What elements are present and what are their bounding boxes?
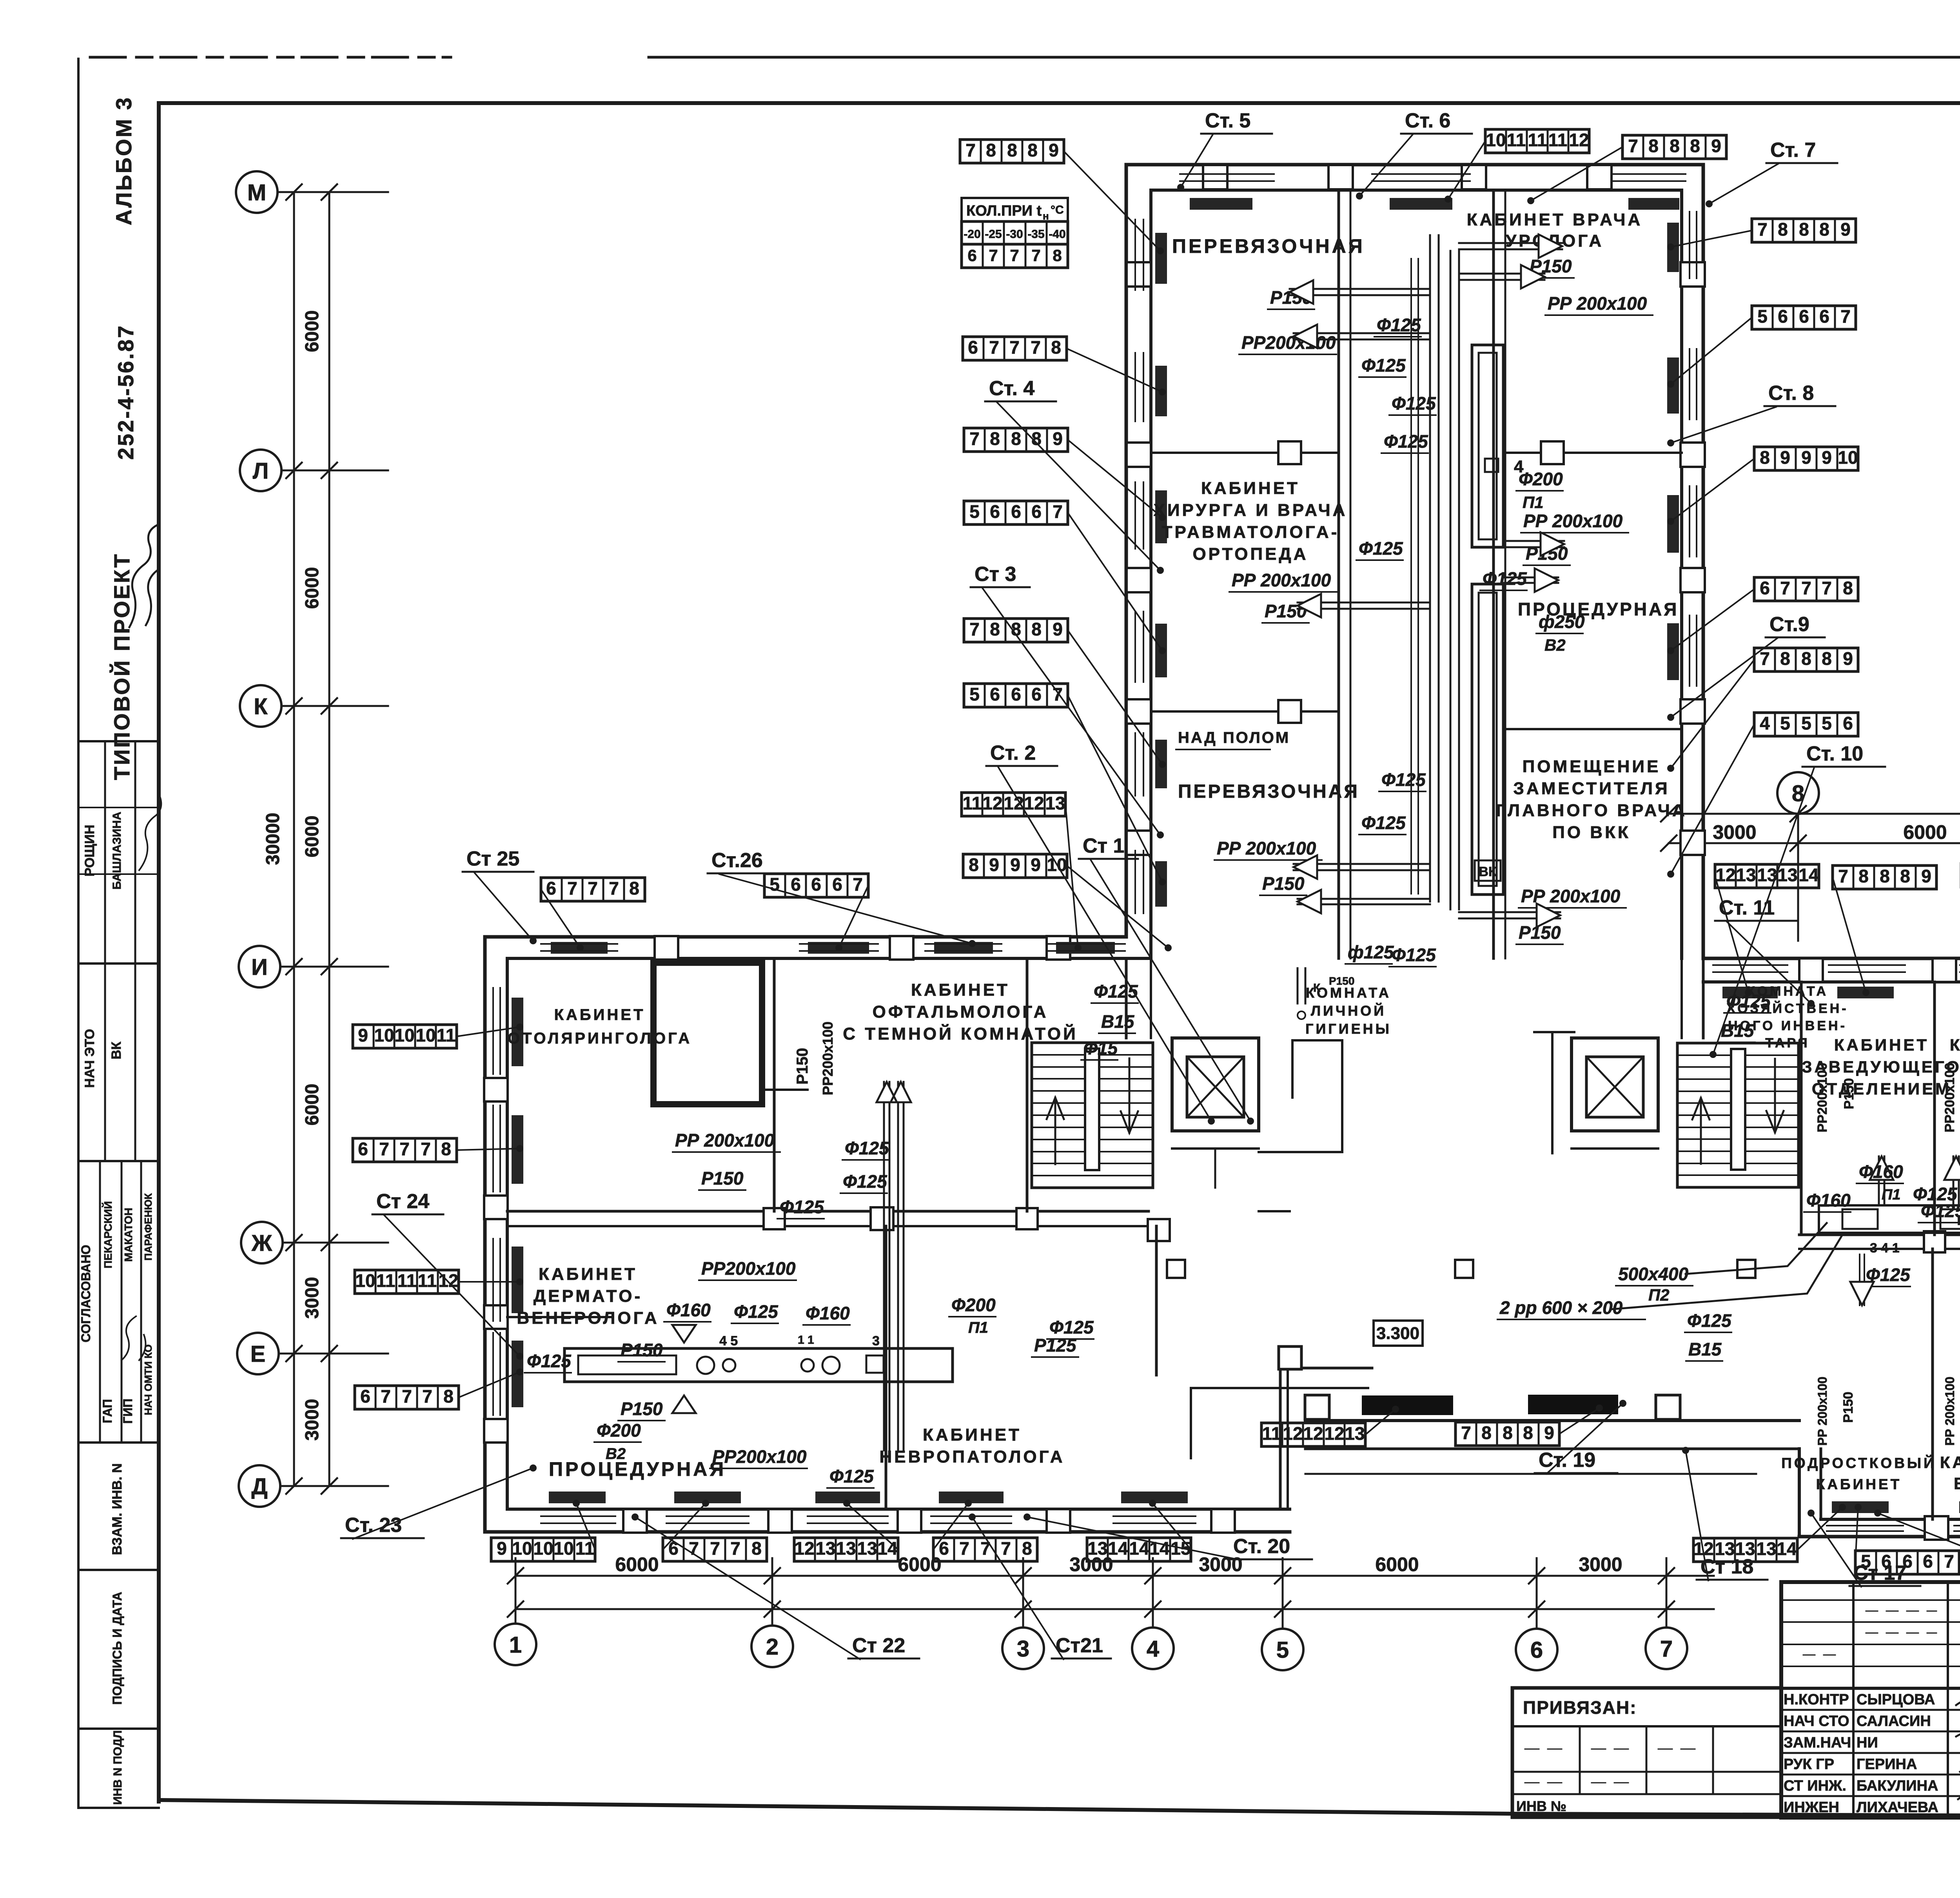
svg-text:8: 8: [986, 140, 996, 160]
svg-text:ДЕРМАТО-: ДЕРМАТО-: [534, 1287, 642, 1306]
left wing bottom wall: [485, 1530, 1290, 1534]
svg-text:14: 14: [877, 1538, 898, 1559]
svg-text:ГИП: ГИП: [121, 1399, 135, 1424]
svg-text:НАЧ ЭТО: НАЧ ЭТО: [82, 1029, 97, 1088]
svg-text:6: 6: [967, 246, 976, 265]
svg-text:ВК: ВК: [109, 1042, 124, 1060]
svg-text:Р150: Р150: [621, 1340, 663, 1360]
svg-text:ЗАМ.НАЧ: ЗАМ.НАЧ: [1784, 1735, 1851, 1751]
number box 5 6 6 6 7: [1855, 1551, 1959, 1574]
right wing top wall pilaster: [1933, 958, 1956, 982]
dim tick axis 4: [1145, 1568, 1161, 1617]
svg-text:13: 13: [1045, 793, 1065, 813]
svg-text:6000: 6000: [302, 1084, 323, 1126]
leader line: [1671, 660, 1754, 768]
svg-text:3000: 3000: [1713, 821, 1756, 843]
svg-text:5: 5: [769, 874, 780, 895]
svg-text:НИ: НИ: [1857, 1735, 1878, 1751]
upper wing top wall pilaster: [1328, 165, 1353, 189]
upper wing top wall: [1126, 163, 1703, 167]
svg-text:Ст.9: Ст.9: [1769, 613, 1809, 636]
svg-text:3: 3: [1017, 1636, 1029, 1662]
number box 12 13 13 13 14: [794, 1538, 898, 1561]
svg-text:11: 11: [1548, 130, 1568, 150]
svg-text:ГАП: ГАП: [100, 1399, 114, 1423]
axis 1 riser: [515, 1558, 517, 1624]
number box 10 11 11 11 12: [1485, 129, 1589, 153]
recess corner block: [1305, 1395, 1329, 1419]
svg-text:7: 7: [1822, 578, 1832, 598]
svg-text:8: 8: [1523, 1423, 1533, 1443]
svg-text:КАБИНЕТ: КАБИНЕТ: [911, 980, 1010, 1000]
radiator upper wing east: [1667, 357, 1679, 414]
leader Ст. 19: [1546, 1403, 1623, 1474]
sheet outer border top-left segment: [90, 56, 451, 59]
svg-text:Ф200: Ф200: [1519, 469, 1563, 489]
svg-text:8: 8: [751, 1538, 762, 1559]
left wing west wall pilaster: [484, 1078, 508, 1101]
svg-text:13: 13: [857, 1538, 877, 1559]
svg-text:КАБИНЕТ: КАБИНЕТ: [554, 1006, 646, 1023]
window line upper wing top: [1180, 173, 1274, 175]
svg-text:-40: -40: [1049, 228, 1065, 241]
stamp row2 col lines: [104, 964, 106, 1161]
duct arrow left 3: [1298, 602, 1430, 604]
dim tick at Л: [286, 463, 337, 478]
central recess left wall: [1279, 1370, 1282, 1509]
svg-text:Ф125: Ф125: [1361, 813, 1406, 833]
svg-text:8: 8: [1880, 866, 1890, 886]
svg-text:9: 9: [1801, 447, 1811, 468]
leader line: [1715, 876, 1748, 993]
svg-text:Р150: Р150: [1262, 873, 1305, 894]
window line upper wing east: [1689, 615, 1690, 686]
left wing bottom wall pilaster: [768, 1509, 792, 1533]
svg-text:Ст.26: Ст.26: [711, 849, 763, 872]
svg-text:Ст. 7: Ст. 7: [1770, 139, 1816, 161]
number box 7 8 8 8 9: [960, 140, 1064, 163]
axis 7 riser: [1666, 1558, 1668, 1628]
title block thin row: [1781, 1599, 1960, 1601]
svg-text:П1: П1: [1523, 493, 1544, 512]
svg-text:9: 9: [358, 1025, 368, 1045]
svg-text:13: 13: [1087, 1538, 1107, 1559]
corridor end column: [1148, 1219, 1170, 1241]
leader Ст21: [972, 1517, 1063, 1659]
svg-text:Ст. 5: Ст. 5: [1205, 109, 1250, 132]
leader line: [1068, 440, 1162, 517]
personnel row line: [1781, 1731, 1960, 1733]
svg-text:Ф125: Ф125: [1392, 393, 1436, 414]
dim tick at Ж: [286, 1235, 337, 1250]
svg-text:ПО ВКК: ПО ВКК: [1552, 823, 1631, 842]
leader Ст.9: [1671, 638, 1777, 717]
svg-text:3: 3: [872, 1334, 880, 1348]
svg-text:-25: -25: [985, 228, 1002, 241]
svg-text:Ст 3: Ст 3: [975, 563, 1016, 586]
svg-text:7: 7: [1760, 648, 1770, 669]
svg-text:12: 12: [982, 793, 1002, 813]
svg-text:РР 200х100: РР 200х100: [1943, 1377, 1957, 1446]
leader line: [839, 885, 868, 948]
privyazan header line: [1512, 1725, 1781, 1727]
stamp row1 horizontal mid lines: [78, 807, 159, 808]
left elevator lobby walls: [1172, 1147, 1259, 1150]
svg-text:12: 12: [1283, 1423, 1303, 1444]
svg-text:Ф125: Ф125: [1377, 315, 1421, 335]
svg-text:30000: 30000: [263, 813, 283, 865]
svg-text:10: 10: [512, 1538, 532, 1559]
window line upper wing top: [1372, 173, 1470, 175]
svg-text:Ф125: Ф125: [1361, 355, 1406, 376]
svg-text:РР 200х100: РР 200х100: [675, 1130, 775, 1150]
black vent rect 2: [1528, 1395, 1618, 1414]
privyazan row: [1512, 1771, 1781, 1773]
axis circle М: [236, 171, 278, 213]
number box 9 10 10 10 11: [491, 1538, 595, 1561]
svg-text:6: 6: [1530, 1637, 1543, 1663]
right stairwell: [1677, 1043, 1798, 1187]
svg-text:ВК: ВК: [1479, 864, 1497, 879]
svg-text:Р125: Р125: [1034, 1335, 1077, 1355]
svg-text:Ф125: Ф125: [1913, 1184, 1958, 1204]
svg-text:5: 5: [1757, 306, 1768, 327]
svg-text:ЛИЧНОЙ: ЛИЧНОЙ: [1311, 1002, 1386, 1019]
duct shaft lower: [1472, 584, 1503, 895]
main corridor south wall right wing: [1799, 1234, 1960, 1236]
leader line: [847, 1503, 898, 1550]
top-right dim chain line 2: [1669, 842, 1960, 844]
leader line: [457, 1027, 520, 1036]
inventory room walls: [1534, 1031, 1574, 1033]
svg-text:РР200х100: РР200х100: [1942, 1063, 1957, 1132]
right elevator lobby walls: [1572, 1147, 1658, 1150]
svg-text:8: 8: [1858, 866, 1869, 886]
axis Л extension line: [281, 470, 388, 472]
svg-text:РР200х100: РР200х100: [701, 1258, 796, 1279]
left wing bottom wall pilaster: [1047, 1509, 1070, 1533]
svg-text:АЛЬБОМ 3: АЛЬБОМ 3: [111, 96, 136, 225]
svg-text:8: 8: [990, 619, 1000, 639]
main corridor north wall: [507, 1210, 1149, 1213]
svg-text:Л: Л: [253, 458, 269, 484]
svg-text:Р150: Р150: [1842, 1078, 1857, 1109]
title block dash marks: [1866, 1611, 1936, 1612]
sheet inner frame left: [157, 103, 161, 1802]
axis К extension line: [281, 705, 388, 707]
hall column 1: [1167, 1260, 1185, 1278]
radiator left wing south: [815, 1492, 880, 1503]
left dimension chain line 1: [293, 192, 295, 1486]
svg-text:7: 7: [730, 1538, 740, 1559]
svg-text:1 1: 1 1: [798, 1334, 814, 1346]
svg-text:8: 8: [969, 855, 979, 875]
kol.pri table bottom row: [962, 244, 1068, 268]
axis circle Е: [237, 1333, 279, 1374]
svg-text:ПРОЦЕДУРНАЯ: ПРОЦЕДУРНАЯ: [549, 1458, 726, 1480]
wing corridor west wall: [1338, 190, 1340, 958]
right duct band boxes: [1940, 1209, 1960, 1229]
duct arrow left 2: [1294, 332, 1430, 334]
window line upper wing east: [1689, 486, 1690, 557]
svg-text:7: 7: [1009, 337, 1020, 357]
svg-text:Ст. 8: Ст. 8: [1768, 382, 1814, 405]
leader Ст.26: [719, 874, 972, 944]
partition otolaryngolog/oftalmolog: [773, 958, 776, 1211]
axis circle К: [240, 685, 281, 727]
svg-text:8: 8: [1031, 619, 1042, 639]
svg-text:НАЧ СТО: НАЧ СТО: [1784, 1713, 1849, 1729]
number box 13 14 14 14 15: [1087, 1538, 1191, 1561]
svg-text:9: 9: [1840, 219, 1851, 240]
window line upper wing west: [1134, 733, 1136, 796]
duct arrow left 1: [1290, 288, 1430, 290]
hall west wall stub: [1125, 958, 1128, 1038]
svg-text:12: 12: [1024, 793, 1044, 813]
svg-text:12: 12: [794, 1538, 814, 1559]
radiator right wing north: [1722, 987, 1778, 998]
title block vertical: [1852, 1582, 1855, 1818]
axis circle 7: [1646, 1628, 1687, 1669]
right wing top wall pilaster: [1799, 958, 1823, 982]
svg-text:9: 9: [989, 855, 999, 875]
svg-text:П1: П1: [1882, 1187, 1900, 1203]
stamp handwriting over title: [129, 525, 157, 627]
svg-text:7: 7: [710, 1538, 720, 1559]
left stairwell: [1032, 1043, 1153, 1188]
svg-text:7: 7: [980, 1538, 991, 1559]
window line upper wing west: [1134, 220, 1136, 290]
number box 7 8 8 8 9: [1622, 135, 1726, 159]
svg-text:3000: 3000: [302, 1277, 323, 1319]
svg-text:8: 8: [1648, 136, 1659, 156]
central south wall block right: [1656, 1395, 1680, 1419]
svg-text:14: 14: [1798, 865, 1819, 885]
svg-text:Р150: Р150: [1841, 1392, 1856, 1423]
duct riser lines in corridor: [1429, 235, 1431, 902]
personnel row line: [1781, 1752, 1960, 1754]
svg-text:10: 10: [394, 1025, 414, 1045]
svg-text:7: 7: [1010, 246, 1019, 265]
number box 5 6 6 6 7: [1752, 306, 1856, 329]
radiator upper wing west: [1155, 861, 1167, 907]
svg-text:7: 7: [1461, 1423, 1471, 1443]
svg-text:Ст. 2: Ст. 2: [990, 742, 1036, 764]
svg-text:Ж: Ж: [251, 1230, 272, 1256]
dim tick chain start: [1661, 806, 1677, 851]
svg-text:8: 8: [1011, 428, 1021, 449]
svg-text:6: 6: [832, 874, 842, 895]
svg-text:7: 7: [609, 878, 619, 898]
svg-text:10: 10: [416, 1025, 436, 1045]
svg-text:6000: 6000: [898, 1553, 941, 1575]
number box 11 12 12 12 13: [962, 793, 1065, 816]
axis circle Л: [240, 450, 281, 491]
dim tick axis 6: [1529, 1568, 1544, 1617]
svg-text:12: 12: [1324, 1423, 1344, 1444]
svg-text:8: 8: [1690, 136, 1700, 156]
upper wing top wall pilaster: [1203, 165, 1227, 189]
window line left wing south: [666, 1515, 749, 1517]
stamp divider y4410: [78, 1727, 159, 1730]
svg-text:КАБИНЕТ: КАБИНЕТ: [1201, 479, 1300, 498]
leader Ст. 5: [1181, 134, 1213, 187]
svg-text:КАБИНЕТ: КАБИНЕТ: [1940, 1453, 1960, 1472]
title block outer: [1781, 1582, 1960, 1818]
hygiene room walls: [1292, 1039, 1342, 1042]
leader line: [1855, 1507, 1858, 1562]
number box 10 11 11 11 12: [355, 1270, 459, 1294]
svg-text:6: 6: [1923, 1551, 1933, 1571]
svg-text:6: 6: [1778, 306, 1788, 327]
sheet inner frame bottom: [159, 1800, 1960, 1818]
svg-text:Ф125: Ф125: [1049, 1317, 1094, 1337]
svg-text:9: 9: [1711, 136, 1721, 156]
number box 6 7 7 7 8: [355, 1386, 459, 1409]
svg-text:7: 7: [1838, 866, 1848, 886]
axis М extension line: [278, 191, 388, 193]
svg-text:Ст. 4: Ст. 4: [989, 377, 1034, 400]
svg-text:РР200х100: РР200х100: [712, 1446, 807, 1467]
leader line: [1671, 230, 1752, 247]
svg-text:8: 8: [1670, 136, 1680, 156]
svg-text:ГЛАВНОГО ВРАЧА: ГЛАВНОГО ВРАЧА: [1496, 801, 1687, 820]
upper wing east wall pilaster: [1681, 443, 1705, 467]
leader Ст. 20: [1027, 1517, 1241, 1560]
number box 4 5 5 5 6: [1754, 713, 1858, 736]
left wing west wall: [483, 937, 487, 1532]
svg-text:9: 9: [1010, 855, 1020, 875]
svg-text:Ф125: Ф125: [1726, 991, 1771, 1011]
svg-text:8: 8: [1022, 1538, 1032, 1559]
svg-text:8: 8: [443, 1386, 454, 1406]
svg-text:6000: 6000: [615, 1553, 659, 1575]
svg-text:7: 7: [989, 246, 998, 265]
svg-text:14: 14: [1777, 1539, 1797, 1559]
svg-text:10: 10: [374, 1025, 394, 1045]
upper wing west wall pilaster: [1127, 831, 1151, 855]
radiator upper wing top: [1190, 198, 1252, 210]
number box 9 10 10 10 11: [353, 1025, 457, 1048]
svg-text:ГЕРИНА: ГЕРИНА: [1857, 1756, 1917, 1773]
svg-text:-30: -30: [1006, 228, 1023, 241]
radiator upper wing east: [1667, 623, 1679, 680]
svg-text:5: 5: [1780, 713, 1790, 733]
window line upper wing top: [1611, 173, 1686, 175]
svg-text:9: 9: [1053, 428, 1063, 449]
svg-text:8: 8: [1053, 246, 1062, 265]
svg-text:НЕВРОПАТОЛОГА: НЕВРОПАТОЛОГА: [879, 1447, 1065, 1466]
kol.pri table header: [962, 198, 1068, 221]
left wing top wall pilaster: [655, 936, 678, 960]
stamp row1 col lines: [104, 741, 106, 964]
window line right wing north: [1829, 964, 1905, 966]
dim tick at К: [286, 698, 337, 714]
svg-text:12: 12: [1569, 130, 1589, 150]
left elevator: [1172, 1038, 1259, 1131]
svg-text:8: 8: [990, 428, 1000, 449]
corridor block at 2620: [1016, 1208, 1038, 1229]
svg-text:7: 7: [421, 1139, 431, 1159]
title block vertical: [1947, 1582, 1949, 1818]
axis circle Ж: [241, 1222, 283, 1263]
entrance step line: [1191, 1387, 1368, 1389]
svg-text:7: 7: [1628, 136, 1638, 156]
svg-text:11: 11: [1262, 1423, 1281, 1444]
left wing west wall pilaster: [484, 1305, 508, 1329]
svg-text:9: 9: [497, 1538, 507, 1559]
leader line: [1531, 147, 1622, 201]
leader 500x400: [1686, 1223, 1827, 1274]
radiator upper wing top: [1390, 198, 1452, 210]
svg-text:ОФТАЛЬМОЛОГА: ОФТАЛЬМОЛОГА: [873, 1002, 1049, 1022]
partition procedurnaya/nevropatolog: [885, 1226, 887, 1509]
svg-text:Ст. 10: Ст. 10: [1806, 742, 1863, 765]
svg-text:8: 8: [1819, 219, 1829, 240]
leader Ст. 8: [1671, 407, 1776, 443]
svg-text:Ф125: Ф125: [1381, 769, 1426, 790]
svg-text:6000: 6000: [302, 567, 323, 609]
upper wing west wall pilaster: [1127, 568, 1151, 592]
svg-text:ПЕРЕВЯЗОЧНАЯ: ПЕРЕВЯЗОЧНАЯ: [1178, 781, 1359, 802]
svg-text:НАД ПОЛОМ: НАД ПОЛОМ: [1178, 729, 1290, 746]
duct arrow right 4: [1503, 577, 1558, 579]
svg-text:7: 7: [965, 140, 976, 160]
svg-text:КАБИНЕТ: КАБИНЕТ: [539, 1265, 637, 1284]
svg-text:11: 11: [1507, 130, 1526, 150]
svg-text:11: 11: [437, 1025, 456, 1045]
axis Ж extension line: [283, 1242, 388, 1244]
svg-text:10: 10: [533, 1538, 553, 1559]
top-right dim chain line 1: [1669, 813, 1960, 815]
svg-text:РУК ГР: РУК ГР: [1784, 1756, 1834, 1773]
duct arrow right 3: [1503, 540, 1564, 542]
leader line: [1448, 141, 1485, 199]
svg-text:252-4-56.87: 252-4-56.87: [113, 324, 138, 460]
svg-text:4 5: 4 5: [719, 1334, 738, 1348]
number box 6 7 7 7 8: [663, 1538, 767, 1561]
right duct band: [1819, 1205, 1960, 1233]
svg-text:Ф125: Ф125: [780, 1197, 824, 1217]
svg-text:ГИГИЕНЫ: ГИГИЕНЫ: [1305, 1021, 1392, 1037]
svg-text:6: 6: [358, 1139, 368, 1159]
leader Ст. 7: [1709, 164, 1778, 204]
leader line: [1559, 1408, 1599, 1434]
svg-text:К: К: [1313, 982, 1321, 994]
leader line: [933, 1503, 968, 1550]
svg-text:9: 9: [1053, 619, 1063, 639]
svg-text:ф250: ф250: [1539, 611, 1585, 632]
radiator left wing west: [512, 998, 523, 1066]
svg-text:13: 13: [815, 1538, 835, 1559]
hall column 3: [1737, 1260, 1755, 1278]
stamp divider y1891: [78, 740, 159, 742]
stamp signature squiggle 2: [122, 1316, 145, 1360]
leader Ст. 6: [1359, 134, 1413, 196]
svg-text:Ст. 6: Ст. 6: [1405, 109, 1450, 132]
axis И extension line: [280, 966, 388, 968]
radiator right wing south: [1959, 1501, 1960, 1513]
radiator left wing west: [512, 1247, 523, 1313]
svg-text:8: 8: [1900, 866, 1910, 886]
radiator left wing north: [551, 942, 608, 954]
svg-text:Ф200: Ф200: [597, 1420, 641, 1441]
wing partition west 1: [1151, 452, 1339, 454]
dim tick axis 2: [764, 1568, 780, 1617]
leader line: [1068, 630, 1162, 764]
axis circle Д: [239, 1465, 280, 1507]
upper wing top wall pilaster: [1462, 165, 1486, 189]
